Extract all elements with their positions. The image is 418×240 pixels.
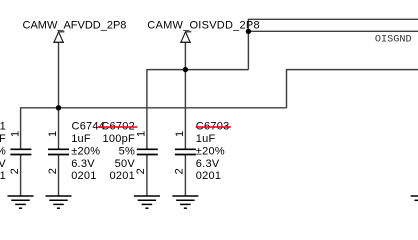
svg-text:100pF: 100pF — [103, 133, 135, 145]
wire AFVDD arrow stem through bus to cap C6744 — [58, 42, 60, 149]
junction dot at OISVDD stem and segment — [183, 67, 188, 72]
wire AFVDD off-page right y=69.6 — [286, 69, 418, 71]
wire AFVDD bus horizontal y=107.8 — [21, 107, 287, 109]
svg-text:OISGND: OISGND — [375, 35, 412, 46]
wire cap C6741 lower stem to ground — [20, 155, 22, 197]
ground symbol for C6703 — [172, 196, 198, 208]
capacitor C6744 plates — [48, 149, 69, 154]
svg-text:0201: 0201 — [110, 170, 135, 182]
svg-text:5%: 5% — [119, 145, 135, 157]
wire OISVDD riser x=248.4 — [247, 19, 249, 69]
svg-text:1uF: 1uF — [0, 133, 6, 145]
svg-text:6.3V: 6.3V — [0, 158, 6, 170]
power symbol arrow CAMW_AFVDD_2P8 — [53, 32, 64, 43]
capacitor C6741 (left, partially cut off) plates — [10, 149, 31, 154]
junction dot at OISVDD riser top — [246, 29, 251, 34]
svg-text:1: 1 — [47, 131, 59, 137]
svg-text:2: 2 — [9, 168, 21, 174]
wire bus right riser x=286.5 — [286, 70, 288, 108]
capacitor C6744 value labels — [71, 133, 100, 182]
ground symbol for C6702 — [134, 196, 160, 208]
capacitor C6702 value labels — [103, 133, 136, 182]
capacitor C6741 value labels (clipped at left edge) — [0, 121, 6, 183]
svg-text:±20%: ±20% — [196, 145, 225, 157]
svg-text:C6741: C6741 — [0, 121, 6, 133]
ground symbol for C6744 — [46, 196, 72, 208]
wire cap C6702 drop from OISVDD segment — [146, 69, 148, 149]
svg-text:1: 1 — [136, 131, 148, 137]
wire OISVDD off-page top y=19.3 — [248, 18, 418, 20]
svg-text:2: 2 — [135, 168, 147, 174]
wire cap C6741 drop from bus — [20, 107, 22, 149]
red strikethrough over C6702 — [98, 126, 138, 128]
ground symbol clipped at right edge — [411, 196, 418, 200]
svg-text:6.3V: 6.3V — [71, 158, 95, 170]
wire OISVDD off-page right y=31.3 — [248, 30, 418, 32]
svg-text:2: 2 — [174, 168, 186, 174]
ground symbol for C6741 — [8, 196, 34, 208]
capacitor C6703 value labels — [196, 133, 225, 182]
junction dot at AFVDD stem and bus — [56, 105, 61, 110]
svg-text:1: 1 — [174, 131, 186, 137]
svg-text:CAMW_AFVDD_2P8: CAMW_AFVDD_2P8 — [23, 19, 127, 31]
svg-text:1uF: 1uF — [71, 133, 91, 145]
wire cap C6702 lower stem to ground — [146, 155, 148, 197]
svg-text:±20%: ±20% — [0, 145, 6, 157]
wire OISVDD horizontal segment y=69.6 — [147, 69, 249, 71]
svg-text:±20%: ±20% — [71, 145, 100, 157]
svg-text:2: 2 — [47, 168, 59, 174]
svg-text:0201: 0201 — [71, 170, 96, 182]
svg-text:1uF: 1uF — [196, 133, 216, 145]
power symbol arrow CAMW_OISVDD_2P8 — [180, 32, 191, 43]
wire cap C6703 lower stem to ground — [184, 155, 186, 197]
capacitor C6702 plates — [137, 149, 158, 154]
capacitor C6703 plates — [175, 149, 196, 154]
svg-text:6.3V: 6.3V — [196, 158, 220, 170]
svg-text:CAMW_OISVDD_2P8: CAMW_OISVDD_2P8 — [147, 19, 260, 31]
svg-text:0201: 0201 — [196, 170, 221, 182]
svg-text:1: 1 — [10, 131, 22, 137]
wire cap C6744 lower stem to ground — [58, 155, 60, 197]
svg-text:50V: 50V — [115, 158, 136, 170]
svg-text:0201: 0201 — [0, 170, 6, 182]
red strikethrough over C6703 — [196, 126, 231, 128]
wire OISVDD arrow stem through segment to cap C6703 — [184, 42, 186, 149]
